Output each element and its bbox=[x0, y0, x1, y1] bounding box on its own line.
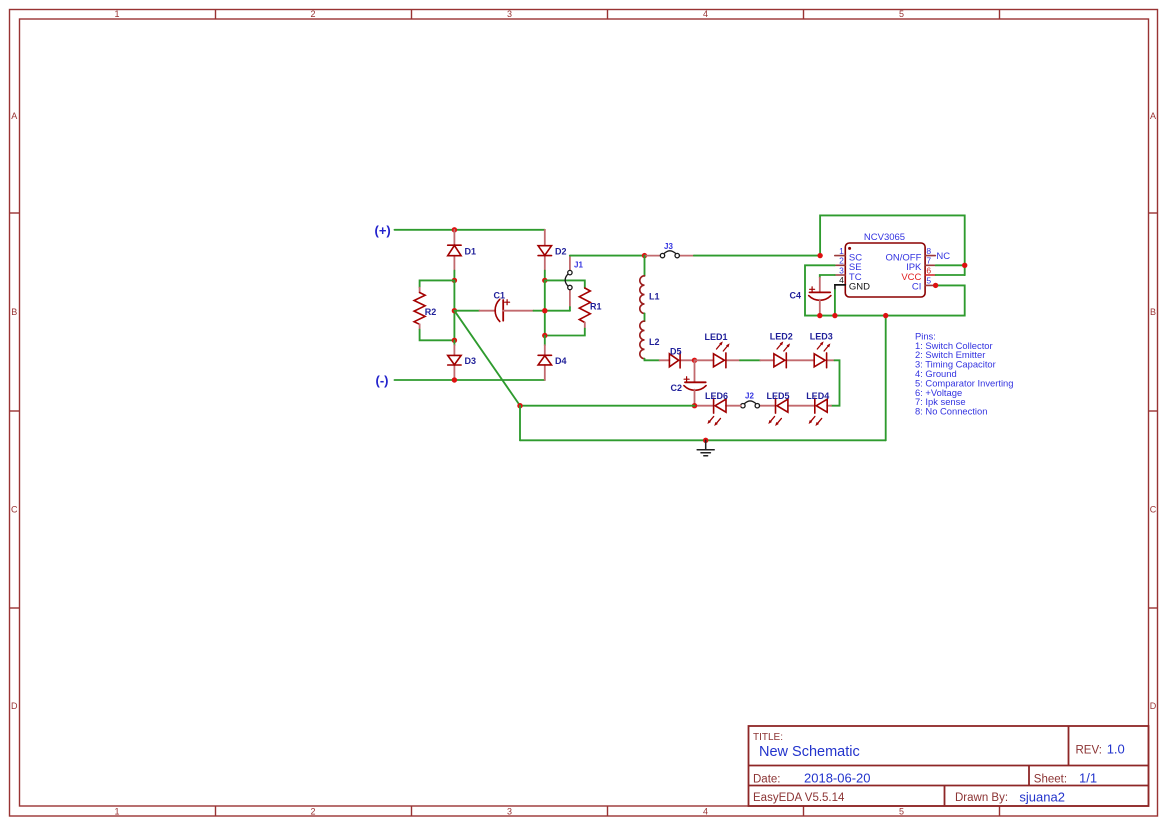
svg-text:B: B bbox=[11, 307, 17, 317]
wire pin 4 to ground bus bbox=[835, 285, 845, 316]
svg-text:D5: D5 bbox=[670, 346, 682, 356]
svg-text:(+): (+) bbox=[375, 223, 391, 238]
U1 pin 8 (NC) bbox=[886, 246, 951, 263]
wire (+) top rail bbox=[395, 229, 545, 231]
capacitor C2 bbox=[671, 360, 707, 405]
junction bridge left mid node bbox=[452, 308, 457, 313]
wire U1 top loop bbox=[820, 215, 965, 275]
svg-text:J1: J1 bbox=[574, 260, 583, 269]
svg-text:EasyEDA V5.5.14: EasyEDA V5.5.14 bbox=[753, 792, 845, 804]
wire pin 7 to right vertical bbox=[936, 264, 965, 266]
svg-text:3: 3 bbox=[507, 9, 512, 19]
jumper J2 bbox=[741, 391, 760, 408]
wire LED1 to LED2 bbox=[740, 359, 760, 361]
junction ground node bbox=[703, 438, 708, 443]
svg-text:3: 3 bbox=[839, 265, 844, 275]
svg-text:GND: GND bbox=[849, 282, 870, 293]
svg-text:CI: CI bbox=[912, 282, 922, 293]
svg-text:1/1: 1/1 bbox=[1079, 770, 1097, 785]
wire J1 bottom stub bbox=[569, 307, 571, 311]
svg-text:C: C bbox=[11, 505, 18, 515]
wire LED3 to LED4 corner bbox=[831, 360, 840, 405]
capacitor C4 bbox=[790, 278, 831, 316]
inductor L2 bbox=[640, 321, 660, 359]
resistor R2 bbox=[414, 288, 436, 330]
svg-text:D: D bbox=[1150, 701, 1157, 711]
junction R2 bottom node bbox=[452, 338, 457, 343]
svg-text:J2: J2 bbox=[745, 391, 754, 400]
resistor R1 bbox=[579, 288, 601, 329]
svg-text:5: 5 bbox=[899, 9, 904, 19]
diode D3 bbox=[448, 340, 476, 380]
junction top rail node bbox=[452, 227, 457, 232]
U1 pin 5 (CI) bbox=[912, 276, 936, 293]
wire to R2 top bbox=[420, 280, 455, 287]
svg-text:LED3: LED3 bbox=[810, 332, 833, 342]
junction J3 node bbox=[642, 253, 647, 258]
svg-text:sjuana2: sjuana2 bbox=[1019, 790, 1065, 805]
LED LED3 bbox=[810, 332, 835, 368]
wire right drop to ground rail bbox=[885, 316, 887, 441]
svg-text:D1: D1 bbox=[465, 246, 477, 256]
diode D5 bbox=[660, 346, 695, 368]
junction left bottom node bbox=[517, 403, 522, 408]
wire R2 bottom bbox=[420, 330, 455, 341]
svg-text:1: 1 bbox=[114, 806, 119, 816]
junction D1 bottom node bbox=[452, 278, 457, 283]
svg-text:4: 4 bbox=[703, 806, 708, 816]
svg-text:2: 2 bbox=[310, 806, 315, 816]
note pin description bbox=[915, 330, 1013, 416]
svg-text:L2: L2 bbox=[649, 337, 660, 347]
wire pin 3 to C4 bbox=[820, 275, 835, 278]
svg-text:B: B bbox=[1150, 307, 1156, 317]
svg-text:TITLE:: TITLE: bbox=[753, 732, 783, 743]
wire left node down bbox=[519, 406, 521, 441]
CIRCUIT bbox=[375, 215, 1014, 455]
title block text bbox=[753, 732, 1102, 804]
svg-text:REV:: REV: bbox=[1076, 744, 1102, 756]
svg-text:C: C bbox=[1150, 505, 1157, 515]
LED LED2 bbox=[760, 332, 814, 368]
svg-text:LED5: LED5 bbox=[767, 391, 790, 401]
svg-text:2: 2 bbox=[839, 256, 844, 266]
svg-text:4: 4 bbox=[839, 275, 844, 285]
junction D5 node bbox=[692, 358, 697, 363]
svg-text:LED6: LED6 bbox=[705, 391, 728, 401]
diode D4 bbox=[538, 336, 566, 381]
wire R1 bottom bbox=[545, 329, 585, 336]
LED LED1 bbox=[695, 332, 741, 368]
junction U1 pin1 node bbox=[817, 253, 822, 258]
junction right mid node bbox=[542, 308, 547, 313]
svg-text:2: 2 bbox=[310, 9, 315, 19]
LED LED4 bbox=[788, 391, 831, 426]
junction R1 bottom node bbox=[542, 333, 547, 338]
svg-text:8: No Connection: 8: No Connection bbox=[915, 406, 987, 417]
wire bottom LED row to left node bbox=[520, 405, 695, 407]
U1 pin 1 (SC) bbox=[835, 246, 862, 263]
svg-text:NCV3065: NCV3065 bbox=[864, 232, 905, 243]
junction pin 7 node bbox=[962, 263, 967, 268]
svg-text:R2: R2 bbox=[425, 307, 437, 317]
junction right drop node bbox=[883, 313, 888, 318]
LED LED6 bbox=[695, 391, 741, 426]
svg-text:NC: NC bbox=[936, 251, 950, 262]
junction C4 ground node bbox=[817, 313, 822, 318]
svg-text:LED2: LED2 bbox=[770, 332, 793, 342]
U1 pin 7 (IPK) bbox=[906, 256, 936, 274]
wire pin 5 loop to ground bus bbox=[805, 265, 965, 315]
wire right mid vertical bbox=[544, 280, 546, 335]
svg-text:7: 7 bbox=[926, 256, 931, 266]
svg-text:L1: L1 bbox=[649, 291, 660, 301]
U1 pin 4 (GND) bbox=[835, 275, 870, 293]
inductor L1 bbox=[640, 276, 660, 314]
svg-text:4: 4 bbox=[703, 9, 708, 19]
diode D2 bbox=[538, 230, 566, 271]
jumper J1 bbox=[565, 256, 583, 307]
junction pin 4 ground node bbox=[832, 313, 837, 318]
wire D2 node to R1 top bbox=[545, 280, 585, 288]
junction bottom rail node bbox=[452, 377, 457, 382]
svg-text:D4: D4 bbox=[555, 356, 567, 366]
svg-text:LED1: LED1 bbox=[705, 332, 728, 342]
svg-text:1: 1 bbox=[114, 9, 119, 19]
wire J1 to J3 node bbox=[570, 255, 645, 257]
wire D2 bottom stub bbox=[544, 271, 546, 281]
svg-text:R1: R1 bbox=[590, 302, 602, 312]
junction pin 5 node bbox=[933, 283, 938, 288]
wire diagonal to bottom node bbox=[454, 311, 520, 406]
wire C1 right bbox=[534, 310, 570, 312]
wire pin 6 to right vertical bbox=[936, 274, 965, 276]
wire D1 bottom stub bbox=[453, 271, 455, 281]
svg-text:C1: C1 bbox=[494, 291, 506, 301]
svg-text:Drawn By:: Drawn By: bbox=[955, 792, 1008, 804]
U1 pin 6 (VCC) bbox=[901, 265, 935, 283]
svg-text:2018-06-20: 2018-06-20 bbox=[804, 770, 871, 785]
svg-text:1: 1 bbox=[839, 246, 844, 256]
wire J3 to U1 pin 1 bbox=[694, 255, 820, 257]
wire ground rail bbox=[520, 439, 886, 441]
wire L1 to L2 bbox=[644, 313, 646, 321]
diode D1 bbox=[448, 230, 476, 271]
wire L2 to D5 bbox=[645, 359, 660, 361]
IC U1 NCV3065 body bbox=[845, 232, 925, 297]
svg-text:1.0: 1.0 bbox=[1107, 741, 1125, 756]
title block bbox=[749, 726, 1149, 806]
svg-text:A: A bbox=[1150, 111, 1156, 121]
junction C2 bottom node bbox=[692, 403, 697, 408]
svg-text:8: 8 bbox=[926, 246, 931, 256]
svg-text:3: 3 bbox=[507, 806, 512, 816]
capacitor C1 bbox=[480, 291, 534, 322]
wire left mid vertical bbox=[453, 280, 455, 340]
svg-text:5: 5 bbox=[926, 276, 931, 286]
U1 pin 2 (SE) bbox=[835, 256, 862, 274]
svg-text:5: 5 bbox=[899, 806, 904, 816]
svg-text:Date:: Date: bbox=[753, 773, 781, 785]
U1 pin 3 (TC) bbox=[835, 265, 862, 283]
svg-text:D3: D3 bbox=[465, 356, 477, 366]
svg-text:J3: J3 bbox=[664, 242, 673, 251]
svg-text:6: 6 bbox=[926, 265, 931, 275]
ground bbox=[697, 440, 714, 456]
wire C1 left bbox=[454, 310, 479, 312]
svg-text:C4: C4 bbox=[790, 291, 802, 301]
wire (-) bottom rail bbox=[395, 379, 545, 381]
svg-text:(-): (-) bbox=[376, 373, 389, 388]
svg-text:C2: C2 bbox=[671, 383, 683, 393]
svg-text:D2: D2 bbox=[555, 246, 567, 256]
LED LED5 bbox=[760, 391, 790, 426]
svg-text:A: A bbox=[11, 111, 17, 121]
svg-text:LED4: LED4 bbox=[806, 391, 829, 401]
jumper J3 bbox=[645, 242, 694, 258]
svg-text:New Schematic: New Schematic bbox=[759, 744, 860, 760]
svg-text:D: D bbox=[11, 701, 18, 711]
svg-text:Sheet:: Sheet: bbox=[1034, 773, 1067, 785]
wire J3 node down to L1 bbox=[644, 256, 646, 276]
junction D2 bottom node bbox=[542, 278, 547, 283]
